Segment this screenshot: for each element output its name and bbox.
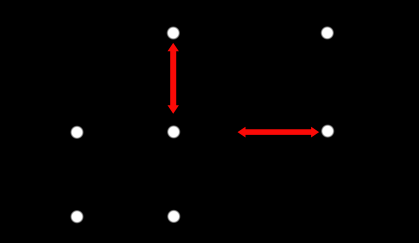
node mid-left	[70, 125, 84, 139]
node mid-middle	[167, 125, 181, 139]
node top-right	[320, 26, 334, 40]
node bottom-left	[70, 210, 84, 224]
vertical double-headed arrow	[168, 43, 179, 114]
horizontal double-headed arrow	[238, 127, 320, 138]
node bottom-middle	[167, 210, 181, 224]
node mid-right	[321, 124, 335, 138]
node top-middle	[166, 26, 180, 40]
